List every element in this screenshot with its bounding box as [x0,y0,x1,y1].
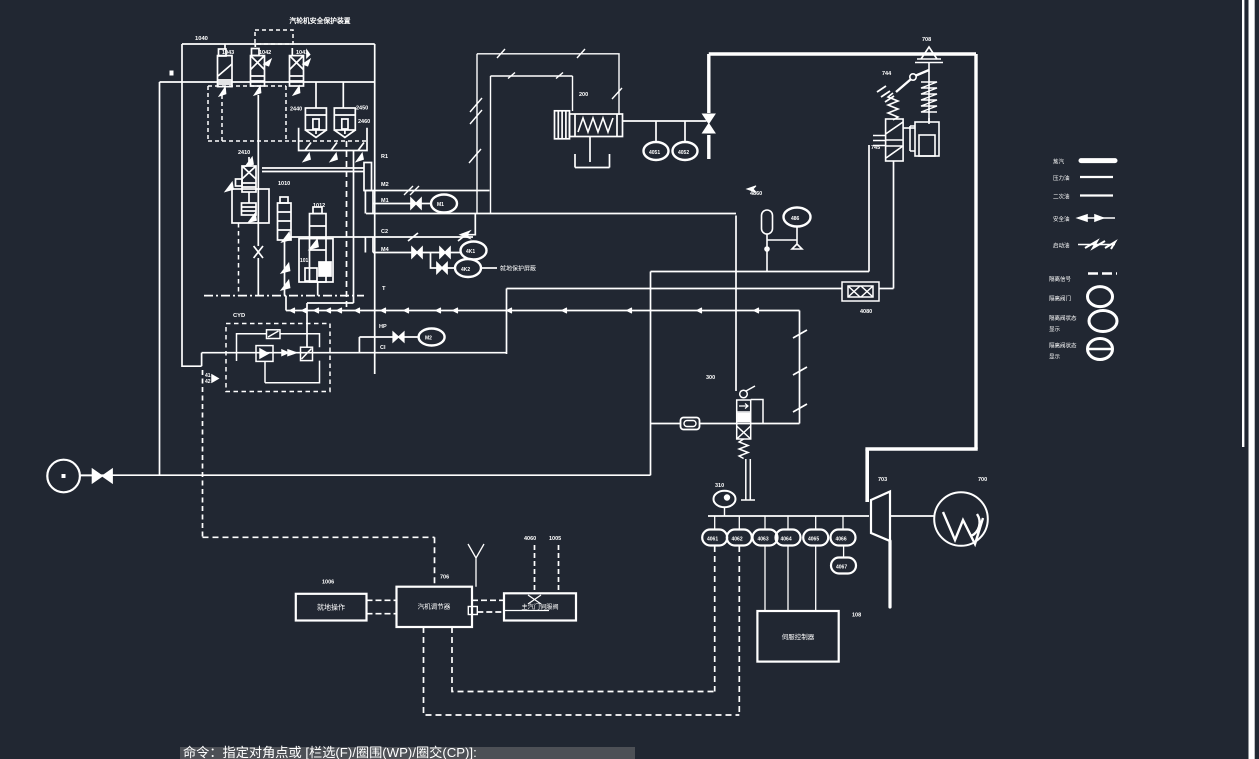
svg-text:蒸汽: 蒸汽 [1053,158,1065,166]
relief left ledge [873,136,886,146]
tag capsule 7 below [831,546,856,574]
solenoid hatch box [555,111,570,139]
svg-text:隔离阀状态: 隔离阀状态 [1049,314,1077,322]
svg-text:1006: 1006 [322,580,334,586]
gauge oval with stem [767,208,811,250]
steam pipe thick [709,54,976,449]
svg-text:CYD: CYD [233,313,245,319]
valve V1 body [218,44,233,96]
wire pump stub [80,475,92,477]
wire line y271.5 [651,271,870,273]
port bracket upper [365,191,373,214]
svg-text:二次油: 二次油 [1053,193,1070,201]
svg-text:1043: 1043 [222,50,234,56]
accumulator bell 1 [305,82,326,138]
wire line y252.5 [373,252,461,254]
tag capsule 3 [753,530,778,546]
wire dash-dot y295.6 [204,295,364,297]
wire valve V1 drop [221,95,223,141]
svg-text:4061: 4061 [707,537,718,543]
svg-text:4064: 4064 [781,537,792,543]
relief stem fins [921,82,937,112]
svg-text:隔离阀状态: 隔离阀状态 [1049,342,1077,350]
servo pilot valve assembly [737,386,763,500]
svg-text:1005: 1005 [549,536,561,542]
wire line y237 [291,236,473,238]
wire x353.5 [353,151,355,304]
svg-text:4860: 4860 [750,191,762,197]
box main stop valve [504,593,576,620]
bracket box x364-371.5 [364,163,372,191]
wire solenoid to steam pipe y121 [623,120,707,122]
legend signal dashed line [1088,272,1117,274]
bottom control boxes [296,587,576,627]
tag capsule 6 [831,530,856,546]
svg-text:310: 310 [715,483,724,489]
wire branch down to y268 [431,253,456,269]
filled square element [319,262,331,276]
svg-text:745: 745 [871,145,880,151]
tag capsule 5 [803,530,828,546]
legend steam line [1081,158,1115,163]
dashed label drops above box3 [535,545,559,593]
svg-text:708: 708 [922,37,931,43]
servo spring [739,439,748,459]
scrollbar thin line [1242,0,1244,447]
servo controller box [757,611,838,662]
wire pump discharge horizontal [80,474,651,476]
gauge oval 4052 [673,121,698,160]
thick elbow y437.5 [865,447,977,451]
svg-text:4065: 4065 [808,537,819,543]
relief lever arm [896,70,929,92]
svg-text:M4: M4 [381,247,390,253]
svg-text:2460: 2460 [358,119,370,125]
svg-text:2450: 2450 [356,106,368,112]
servo side loop [751,400,763,424]
svg-text:4066: 4066 [836,537,847,543]
wire supply vertical left [159,82,161,476]
tag oval 1 [461,242,487,260]
svg-text:命令：指定对角点或 [栏选(F)/圈围(WP)/圈交(CP): 命令：指定对角点或 [栏选(F)/圈围(WP)/圈交(CP)]: [183,744,477,759]
wire x258.3 lower [257,258,259,296]
stack S2 [278,197,292,296]
svg-text:主汽门伺服阀: 主汽门伺服阀 [521,603,558,611]
pump outlet valve bowtie [92,469,112,483]
dashed drop from governor x452 [452,627,715,692]
svg-text:伺服控制器: 伺服控制器 [782,632,815,641]
svg-text:1040: 1040 [195,36,208,42]
dashed capsule drop 2 [738,546,740,715]
wire x286 riser [285,296,287,311]
turbine trapezoid [871,492,890,542]
wire drain line y213.5 [366,213,736,215]
dashed drop from governor x423.5 [424,627,740,715]
svg-text:汽机调节器: 汽机调节器 [418,602,451,611]
X mark in box3 [528,595,541,604]
wire safety-oil line y310.5 with arrows [286,310,800,312]
capsule tag row connectors [715,516,843,530]
wires capsules to controller [765,546,816,611]
legend startup oil line [1078,241,1115,249]
wire drain bottom y423.5 [651,423,800,425]
steam valve bowtie vertical [703,114,716,133]
tag capsule on drain line [681,418,700,430]
svg-text:显示: 显示 [1049,326,1061,333]
legend pressure oil line [1080,176,1113,178]
wire dashed vertical x202.5 [202,370,204,537]
svg-text:4062: 4062 [732,537,743,543]
port bracket lower [365,237,373,253]
svg-text:4080: 4080 [860,309,872,315]
svg-text:42: 42 [205,379,211,385]
solenoid box frame outer [469,49,622,214]
tag oval 2 [455,259,481,277]
gauge oval HP [419,329,445,346]
svg-text:M1: M1 [437,202,444,208]
svg-text:安全油: 安全油 [1053,215,1070,223]
generator shaft [890,515,935,517]
antenna [468,544,484,587]
svg-text:汽轮机安全保护装置: 汽轮机安全保护装置 [289,16,350,25]
node arrow near pipe [747,186,756,192]
valve bowtie pair on y252.5 [412,248,450,258]
svg-text:4067: 4067 [836,565,847,571]
svg-text:4052: 4052 [678,150,689,156]
generator circle [934,492,988,546]
svg-text:1042: 1042 [259,50,271,56]
svg-text:就地保护屏蔽: 就地保护屏蔽 [500,265,536,273]
svg-text:R1: R1 [381,154,388,160]
svg-text:M2: M2 [425,336,432,342]
servo body [737,400,751,439]
dashed rect D1 top [208,85,286,87]
valve bowtie HP [393,332,404,342]
svg-text:显示: 显示 [1049,354,1061,361]
svg-text:就地操作: 就地操作 [317,603,345,612]
accumulator bell 2 [334,82,355,138]
svg-text:HP: HP [379,324,387,330]
svg-text:200: 200 [579,92,588,98]
svg-text:4063: 4063 [758,537,769,543]
turbine inlet thick [865,449,869,502]
S1 lower stripe box [242,192,257,222]
valve bowtie on y268 [437,263,447,273]
CYD amplifier box [256,346,273,362]
svg-text:744: 744 [882,71,892,77]
legend secondary oil line [1080,194,1113,196]
wire to gauge M1 [421,203,431,205]
svg-text:108: 108 [852,613,861,619]
relief spring [888,93,898,120]
svg-text:M2: M2 [381,182,389,188]
tank drain symbol [575,137,610,168]
svg-text:4051: 4051 [649,150,660,156]
svg-text:486: 486 [791,216,800,222]
wire vertical x799.5 [799,311,801,424]
wire gauge branch y203.5 [373,203,411,205]
node slashes on y237 [408,233,468,241]
wire x307 [306,303,308,347]
wire vertical x506.5 [506,289,508,355]
wire frame R1 right long vertical [374,44,376,374]
dashed rect D1 bottom [208,140,366,142]
dashed capsule drop 1 [714,546,716,692]
dashed drop x238.5 [238,223,240,296]
relief bell triangle [915,47,943,63]
connector box2-box3 upper [472,599,504,601]
box governor [397,587,473,627]
connector box1-box2 upper [367,599,397,601]
svg-text:T: T [382,286,386,292]
CYD transducer box [301,347,313,360]
node slash ticks on x799.5 [793,330,807,412]
legend servo line with arrow [1078,215,1115,221]
solenoid spring box [570,114,623,137]
relief block link [903,127,915,129]
tag capsule 1 [702,530,727,546]
wire line y288.5 right of pump block [879,288,894,290]
turbine exhaust [888,541,891,607]
svg-text:700: 700 [978,477,987,483]
CYD controller dashed box [212,324,330,392]
legend isolation valve ellipse [1088,287,1113,307]
wire HP gauge branch [359,337,418,353]
double pilot lines y168 y171.5 [262,168,364,172]
stack S1 pilot valve [236,157,257,192]
scrollbar bar [1249,0,1255,759]
label glyph point [170,71,174,76]
svg-text:压力油: 压力油 [1053,174,1070,182]
svg-text:101: 101 [300,258,309,264]
top dashed box [255,30,293,44]
small box element [305,268,317,281]
svg-text:1041: 1041 [296,50,308,56]
CYD top element box [267,330,281,339]
svg-text:2440: 2440 [290,107,302,113]
SM indicator oval [714,491,736,516]
wire frame R1 left [182,44,202,366]
box local operate [296,594,367,621]
wire dashed x346.5 [346,141,348,308]
relief stem [928,63,930,124]
wire relief left leg x869 [868,145,870,272]
svg-text:4060: 4060 [524,536,536,542]
svg-text:1012: 1012 [313,203,325,209]
relief valve assembly [873,47,943,161]
command bar [180,744,635,759]
svg-text:隔离阀门: 隔离阀门 [1049,295,1071,303]
check valve X on x258.3 [254,246,263,258]
wire jog at x201.6 [201,353,203,367]
turbine pump block inline [842,282,879,301]
capsule solenoid symbol [762,210,773,272]
valve bowtie M1 [411,199,421,209]
svg-text:CI: CI [380,345,386,351]
gauge oval M1 [431,195,457,213]
connector box1-box2 lower [367,613,397,615]
wire valve V2 drop [257,95,259,246]
node double slash on y190.5 [404,186,419,195]
svg-text:300: 300 [706,375,715,381]
relief lever joint [910,74,916,80]
legend membrane ellipse [1088,339,1113,360]
wire line y288.5 left of pump block [507,288,843,290]
node arrow at 461 [461,232,469,238]
svg-text:4K1: 4K1 [466,249,475,255]
node arrow ticks on y310.5 [290,308,759,313]
dashed rect D1 right [285,86,287,141]
svg-text:启动油: 启动油 [1053,242,1070,250]
svg-text:M1: M1 [381,198,389,204]
wire line y190.5 [364,190,490,192]
relief left block [886,119,904,161]
svg-text:703: 703 [878,477,887,483]
svg-text:706: 706 [440,575,449,581]
servo actuator rods [741,459,755,500]
svg-text:隔离信号: 隔离信号 [1049,275,1072,283]
wire vertical x650.5 [650,272,652,476]
svg-text:2410: 2410 [238,150,250,156]
wire vertical x736 to servo valve [735,216,737,392]
leader line to note [481,267,497,269]
line inside box3 [504,610,549,612]
tag capsule 2 [727,530,752,546]
pump circle [47,460,80,493]
instrument bus line y516 [708,515,869,517]
gauge oval 4051 [644,121,669,160]
S1 enclosure frame [232,189,269,223]
connector box2-box3 lower [477,611,504,613]
dashed rect D1 left [207,86,209,141]
wire elbow y303 [307,302,354,304]
svg-text:C2: C2 [381,229,388,235]
arrow glyph left [226,183,233,191]
svg-text:1010: 1010 [278,181,290,187]
wire dashed horizontal y537.3 [203,536,435,538]
CYD inner frame [237,334,320,353]
wire frame R1 top [182,43,375,45]
legend status ellipse [1089,311,1117,332]
valve V3 body [290,48,310,95]
tag capsule 4 [776,530,801,546]
wire line y352.7 secondary oil [202,352,507,354]
manifold box under bells [299,128,367,161]
relief right block [910,118,939,156]
wire relief center leg x893.5 [893,161,895,289]
wire drop x475.3 [463,214,475,235]
arrows into transducer [288,350,296,355]
small tab on governor right [468,607,477,615]
frame around lower valve [299,239,333,282]
svg-text:4K2: 4K2 [461,267,470,273]
relief hatch marks [877,86,894,102]
valve V2 body [251,44,271,95]
wire header y82 [160,81,375,83]
arrow near dashed drop [212,375,218,382]
servo torque motor circle [740,390,748,398]
wire dashed vertical x434.5 [434,537,436,586]
stack S3 tall [310,207,327,296]
